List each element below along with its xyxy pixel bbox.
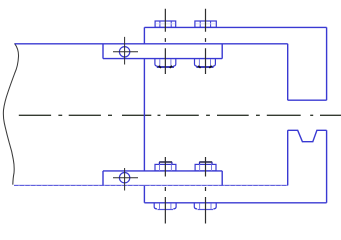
bolt B3 protruding end [159, 162, 172, 164]
small bore top line [288, 99, 327, 101]
sleeve left face [221, 44, 223, 186]
bolt B4 protruding end [199, 162, 212, 164]
outer top line [144, 26, 326, 28]
pin P2 circle [119, 173, 129, 183]
bolt B3 head (below plate) [154, 203, 176, 209]
top clamp bar [103, 44, 222, 59]
bolt B3 centerline (bottom) [164, 157, 166, 224]
bolt B2 head (top) [195, 21, 216, 27]
small bore bottom line with groove notch [288, 130, 327, 141]
horizontal axis centerline [19, 114, 341, 116]
bolt B4 nut (above plate) [195, 164, 216, 171]
bolt B2 nut (below plate) [195, 59, 216, 68]
shaft break line [3, 43, 18, 184]
bolt B1 head (top) [155, 21, 176, 27]
sleeve right edge [326, 27, 328, 202]
shaft top line [15, 43, 288, 45]
pin P1 circle [119, 47, 129, 57]
bolt B2 centerline (top) [205, 9, 207, 74]
outer bottom line [144, 202, 326, 204]
shaft bottom hidden line [14, 184, 288, 186]
bore step [287, 44, 289, 186]
flange disc left edge [143, 27, 145, 202]
bolt B1 nut (below plate) [155, 59, 176, 68]
bolt B1 centerline (top) [164, 9, 166, 74]
pin P1 crosshair [113, 37, 138, 65]
bolt B3 nut (above plate) [155, 164, 176, 171]
bolt B4 centerline (bottom) [205, 157, 207, 224]
bolt B4 head (below plate) [194, 203, 216, 209]
pin P2 crosshair [113, 168, 138, 191]
bottom clamp bar [103, 171, 222, 186]
